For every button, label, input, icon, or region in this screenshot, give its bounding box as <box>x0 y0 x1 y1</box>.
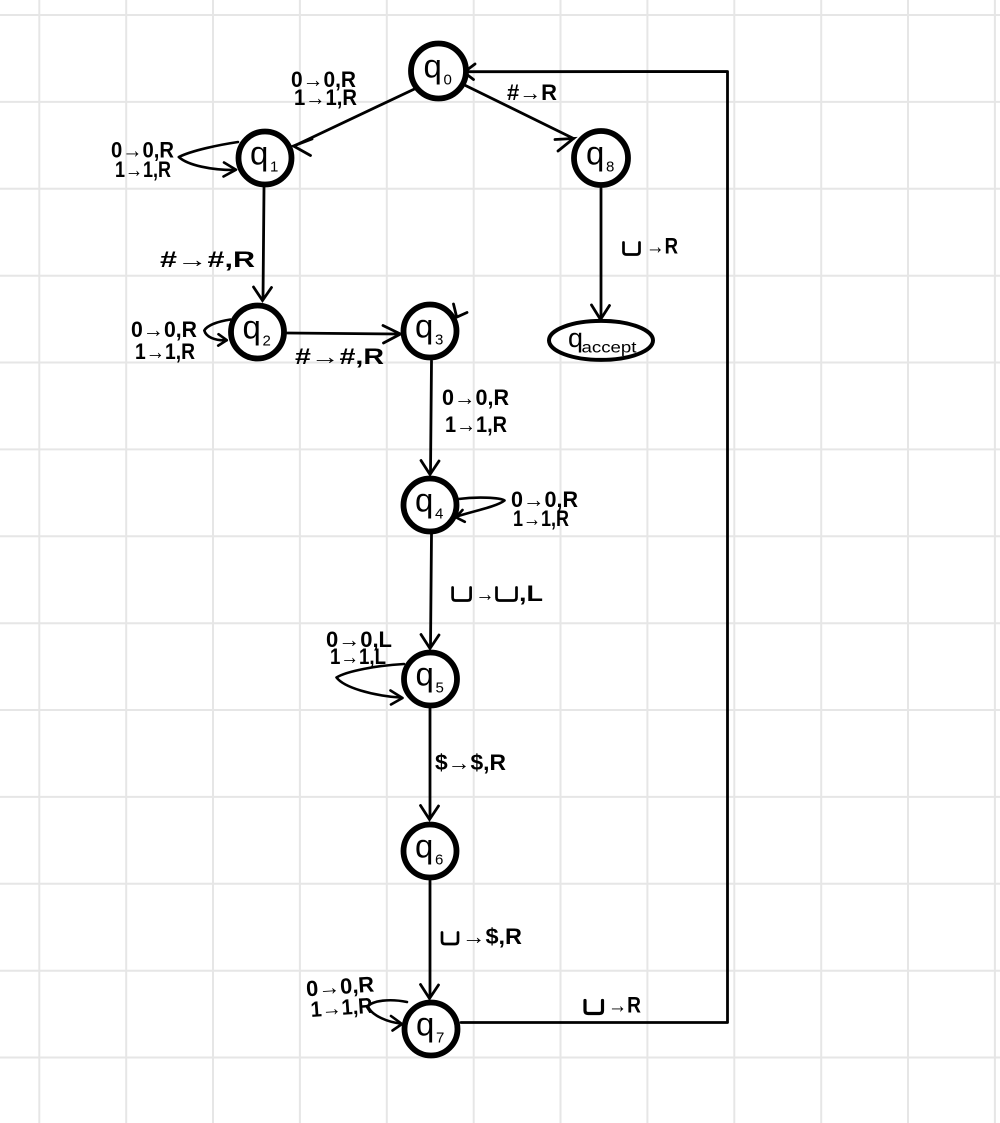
self-loop q7 <box>368 1000 407 1030</box>
svg-text:q: q <box>416 656 434 693</box>
arrowhead into q0 (from q7) <box>464 64 475 80</box>
svg-text:accept: accept <box>582 340 638 357</box>
svg-text:1: 1 <box>270 159 278 176</box>
svg-text:4: 4 <box>435 506 443 523</box>
svg-text:q: q <box>415 482 433 519</box>
transition q3->q4 <box>421 361 439 475</box>
svg-text:1→1,R: 1→1,R <box>294 85 357 110</box>
self-loop q2 <box>204 320 230 346</box>
svg-text:1→1,R: 1→1,R <box>513 506 569 531</box>
svg-text:2: 2 <box>263 333 271 350</box>
svg-text:q: q <box>250 135 268 172</box>
label 0->0,R 1->1,R (q7 loop) <box>305 972 376 1023</box>
svg-text:q: q <box>416 1006 434 1043</box>
transition q2->q3 <box>288 326 401 344</box>
svg-text:,L: ,L <box>519 581 543 606</box>
svg-text:1→1,R: 1→1,R <box>135 339 195 364</box>
svg-text:q: q <box>415 828 433 865</box>
svg-text:7: 7 <box>436 1030 444 1047</box>
transition q8->qaccept <box>592 189 610 320</box>
svg-text:1→1,R: 1→1,R <box>445 412 507 437</box>
stray arrowhead at q3 top-right <box>454 304 468 317</box>
label u->R (q7->q0) <box>585 993 641 1018</box>
svg-text:#→#,R: #→#,R <box>295 344 384 369</box>
state q5 <box>404 653 457 706</box>
state q0 <box>411 44 466 99</box>
label u->u,L (q4->q5) <box>453 581 543 606</box>
self-loop q4 <box>456 498 505 522</box>
state q2 <box>231 306 284 359</box>
self-loop q1 <box>179 142 238 177</box>
self-loop q5 <box>337 664 405 705</box>
state q8 <box>574 131 628 185</box>
state q7 <box>405 1003 458 1056</box>
transition q1->q2 <box>254 188 272 301</box>
state qaccept <box>549 321 653 360</box>
svg-text:#→#,R: #→#,R <box>160 247 255 272</box>
svg-text:q: q <box>424 48 442 85</box>
svg-text:8: 8 <box>606 159 614 176</box>
svg-text:→R: →R <box>646 234 678 259</box>
state q6 <box>404 825 457 878</box>
transition q4->q5 <box>421 534 439 649</box>
state q1 <box>239 132 292 185</box>
svg-text:1→1,R: 1→1,R <box>115 157 171 182</box>
transition q0->q8 <box>466 86 574 152</box>
transition q5->q6 <box>421 709 439 820</box>
label u->$,R (q6->q7) <box>442 924 522 949</box>
svg-text:1→1,R: 1→1,R <box>310 993 374 1022</box>
svg-text:#→R: #→R <box>507 80 557 105</box>
svg-text:6: 6 <box>435 852 443 869</box>
svg-text:→: → <box>476 581 495 606</box>
transition q6->q7 <box>421 881 439 999</box>
transition q7->q0 wire <box>461 72 728 1023</box>
svg-text:q: q <box>243 309 261 346</box>
state q3 <box>404 305 457 358</box>
svg-text:→R: →R <box>608 993 641 1018</box>
svg-text:3: 3 <box>435 332 443 349</box>
svg-text:0→0,R: 0→0,R <box>442 385 509 410</box>
state q4 <box>404 479 457 532</box>
svg-text:1→1,L: 1→1,L <box>330 644 386 669</box>
svg-text:→$,R: →$,R <box>462 924 522 949</box>
svg-text:0: 0 <box>444 72 452 89</box>
label u->R (q8->qaccept) <box>624 234 679 259</box>
svg-text:q: q <box>586 135 604 172</box>
svg-text:q: q <box>415 308 433 345</box>
transition q0->q1 <box>294 89 416 156</box>
svg-text:5: 5 <box>436 680 444 697</box>
svg-text:$→$,R: $→$,R <box>435 750 506 775</box>
